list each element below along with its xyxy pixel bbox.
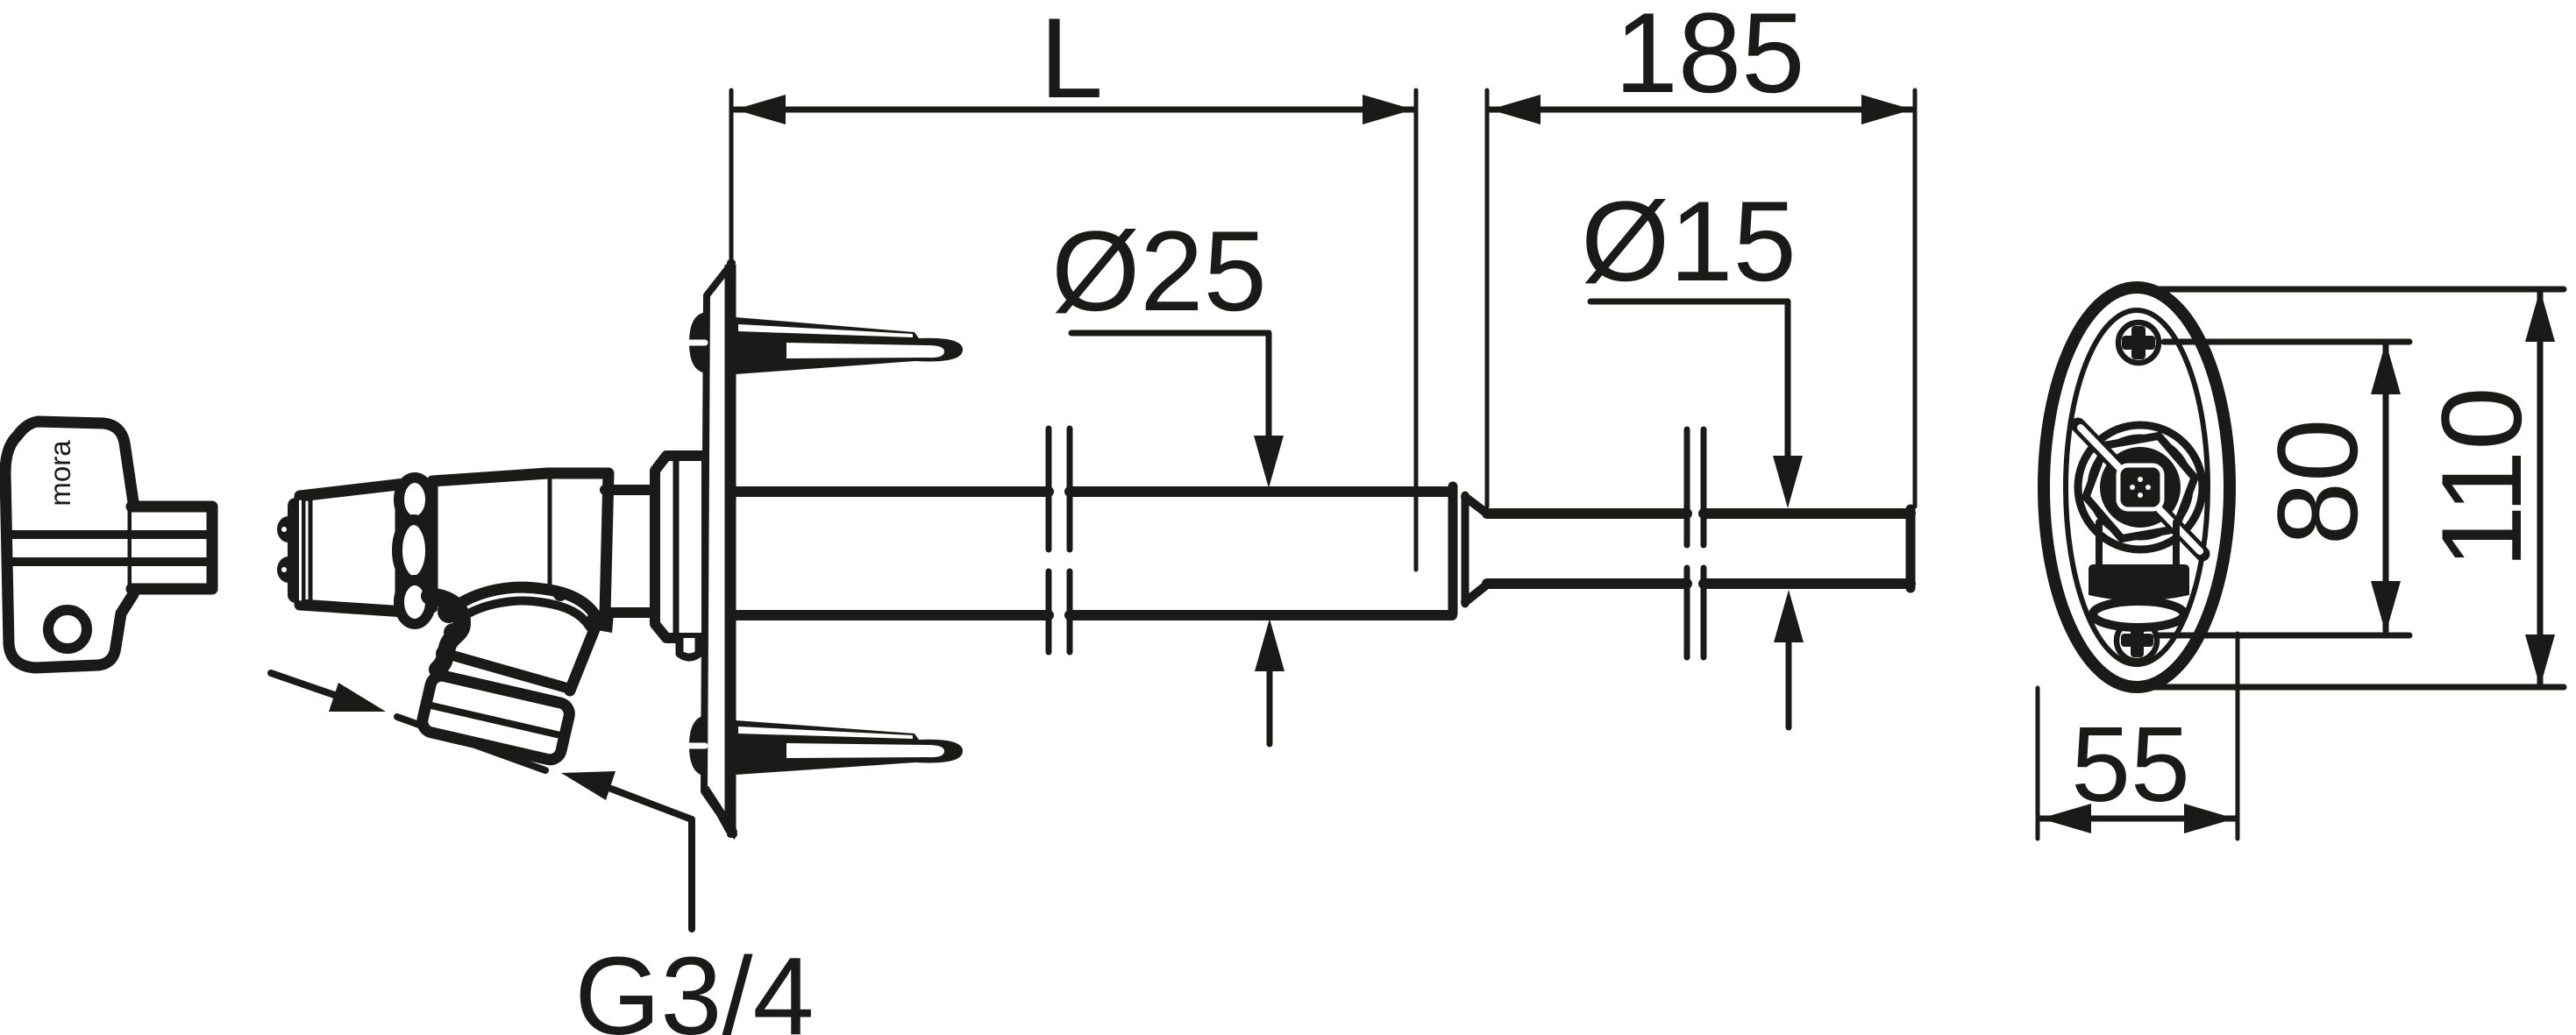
- dimension 55 line: [2040, 816, 2235, 822]
- front valve disc: [2100, 447, 2181, 528]
- bonnet ring bottom: [399, 580, 431, 624]
- front valve hexagon: [2078, 431, 2203, 543]
- outlet neck: [605, 485, 655, 495]
- spout shoulder: [587, 608, 614, 633]
- dimension Ø15 arrow up: [1774, 590, 1804, 642]
- spout knuckle: [430, 596, 462, 670]
- flow arrow upper-left: [271, 673, 342, 698]
- spout dome outer arc: [449, 587, 600, 624]
- wall plate side view: [704, 263, 734, 834]
- front spout outlet ellipse: [2093, 601, 2184, 627]
- loose key hole: [48, 610, 87, 649]
- front valve second ring: [2090, 437, 2190, 537]
- spout collar top line: [456, 656, 570, 689]
- dimension L extension line right: [1414, 90, 1419, 570]
- front spout knurl band: [2089, 564, 2189, 601]
- leader screw top: [2164, 339, 2409, 345]
- spout collar right edge: [570, 620, 598, 691]
- svg-text:185: 185: [1615, 0, 1805, 117]
- bonnet ring top: [399, 478, 431, 521]
- dimension 80 line: [2383, 344, 2389, 631]
- spindle cone face inner line: [309, 501, 313, 601]
- plate screw side bottom: [689, 715, 707, 776]
- dimension Ø25 leader drop: [1266, 333, 1272, 438]
- big pipe end cap: [1448, 486, 1458, 613]
- spout thread inner line: [430, 705, 562, 736]
- front valve rod: [2078, 425, 2202, 554]
- svg-text:G3/4: G3/4: [574, 934, 814, 1035]
- svg-text:L: L: [1040, 0, 1103, 122]
- big pipe top edge: [736, 486, 1049, 497]
- svg-text:Ø15: Ø15: [1581, 177, 1797, 305]
- retaining clip upper: [736, 317, 963, 374]
- dimension Ø15 leader drop: [1785, 301, 1791, 458]
- outlet construction line: [397, 717, 545, 770]
- front valve outer ring: [2078, 425, 2202, 549]
- thin pipe end cap: [1906, 509, 1916, 588]
- wall nut inner line: [673, 457, 680, 636]
- dimension 185 extension line left: [1485, 90, 1490, 507]
- dimension L line: [735, 107, 1413, 113]
- big pipe bottom edge: [736, 610, 1049, 620]
- dimension 185 extension line right: [1913, 90, 1918, 507]
- front view inner oval: [2066, 310, 2208, 664]
- svg-text:Ø25: Ø25: [1051, 207, 1267, 335]
- plate screw side top: [689, 312, 707, 373]
- front valve square: [2118, 465, 2162, 509]
- svg-text:80: 80: [2253, 419, 2381, 546]
- dimension Ø15 leader underline: [1590, 299, 1788, 305]
- front screw top: [2118, 323, 2159, 363]
- front spout neck: [2096, 522, 2103, 568]
- dimension Ø15 arrow up tail: [1786, 641, 1792, 727]
- dimension Ø25 arrow up tail: [1267, 670, 1273, 744]
- spindle cone left face: [288, 494, 305, 606]
- front spout bottom screw: [2117, 620, 2157, 661]
- dimension L arrow right: [1363, 95, 1413, 124]
- wall nut: [655, 456, 707, 638]
- dimension 185 arrow left: [1490, 95, 1541, 124]
- spout thread group: [420, 674, 572, 762]
- dimension 110 line: [2537, 292, 2544, 684]
- dimension Ø15 arrow down: [1773, 456, 1803, 508]
- leader screw bottom: [2156, 633, 2409, 639]
- leader oval bottom: [2153, 684, 2564, 691]
- loose key arm: [132, 507, 212, 589]
- G3/4 leader arrow: [561, 771, 616, 800]
- spout dome inner arc: [459, 601, 590, 627]
- dimension 185 arrow right: [1861, 95, 1912, 124]
- loose key slot lines: [7, 530, 212, 539]
- retaining clip lower: [736, 720, 963, 775]
- dimension Ø25 arrow up: [1255, 619, 1284, 671]
- thin pipe top edge: [1487, 508, 1687, 519]
- wall nut tab: [680, 638, 699, 657]
- valve body: [432, 473, 608, 614]
- spindle cone right line: [395, 510, 402, 596]
- svg-text:110: 110: [2417, 386, 2545, 568]
- thin pipe break mark lines: [1684, 429, 1690, 545]
- spindle cone body: [300, 484, 405, 612]
- dimension Ø25 leader underline: [1071, 330, 1269, 337]
- spout dome dot: [553, 587, 567, 601]
- thin pipe bottom edge: [1487, 578, 1687, 589]
- front view outer oval: [2044, 287, 2230, 687]
- spout thread rect: [420, 674, 572, 762]
- dimension 55 extension lines: [2036, 688, 2040, 839]
- valve body divider line: [548, 477, 552, 591]
- dimension 185 line: [1490, 107, 1912, 113]
- dimension L arrow left: [735, 95, 786, 124]
- big pipe break mark lines: [1046, 429, 1052, 549]
- pipe taper bottom: [1465, 585, 1487, 602]
- bonnet ring middle: [397, 520, 431, 581]
- dimension Ø25 arrow down: [1254, 436, 1284, 488]
- loose key body: [5, 422, 133, 668]
- svg-text:mora: mora: [44, 440, 76, 507]
- dimension L extension line left: [729, 90, 734, 261]
- leader oval top: [2157, 287, 2564, 293]
- svg-text:55: 55: [2071, 705, 2190, 824]
- pipe taper top: [1465, 497, 1487, 514]
